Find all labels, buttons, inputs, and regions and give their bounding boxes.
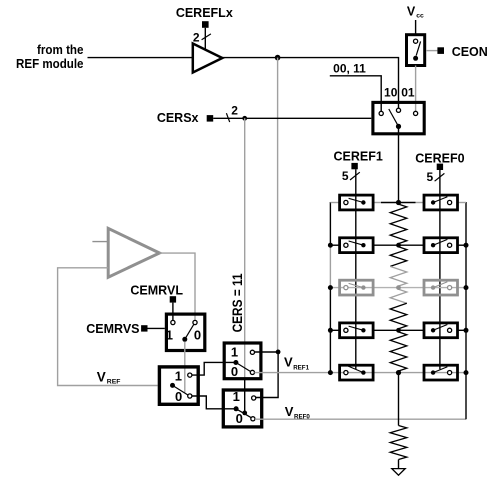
pin: S4 contact 1 [188,373,192,377]
resistor R4: fourth segment [390,332,407,371]
port square CEREF0 [437,164,443,170]
switch lever S5 [236,363,251,372]
wire: S4 contact 0 to CERS switch B [192,396,235,409]
junction node: CERS control on lever [242,411,247,416]
junction ladder tap node row 4 [396,328,401,333]
svg-text:01: 01 [401,86,415,100]
switch lever L2 [349,241,364,245]
pin: R1 right contact [448,200,452,204]
switch lever S2 [389,109,399,126]
switch L4: CEREF1 ladder switch row 4 [340,323,374,338]
switch R1: CEREF0 ladder switch row 1 [424,195,458,210]
junction ladder tap node row 2 [396,243,401,248]
pin: S5 contact 1 [250,350,254,354]
junction node: right bus row at y=287.6 [464,285,469,290]
pin: L3 right contact [361,285,365,289]
switch L3: CEREF1 ladder switch row 3 [340,280,374,295]
svg-text:1: 1 [175,368,182,383]
switch lever S1 [416,41,420,55]
pin: selector common [396,124,401,129]
svg-text:REF: REF [107,379,121,386]
port square CEMRVS [141,325,147,331]
wire: row2 segments (black) [330,244,339,246]
wire: S5 contact 1 to buffer drop junction [255,351,279,353]
svg-text:REF1: REF1 [293,365,309,372]
wire: ladder tap to bottom resistor [398,373,400,426]
pin: R3 left contact [431,285,435,289]
switch lever S6 [236,409,251,418]
wire: row1 inner left (gray then black) [373,202,381,204]
bus slash CEREFLx [202,34,211,40]
resistor R2: second segment (black part) [390,247,407,267]
wire: buffer output drop (gray) to CERS box [277,58,279,352]
pin: S4 contact 0 [188,394,192,398]
bus slash CERSx [226,113,229,122]
wire: selector common to ladder top [398,126,400,202]
bus slash CEREF0 [435,173,445,181]
wire: row1 right stub (gray) [457,202,466,204]
pin: R2 left contact [431,243,435,247]
pin: S6 common [234,406,239,411]
wire: Vcc to CEON switch [415,20,417,34]
wire: buffer output to switch common [222,58,398,109]
pin: L4 right contact [361,328,365,332]
svg-text:cc: cc [416,13,424,20]
pin: L5 right contact [361,370,365,374]
svg-text:1: 1 [166,327,173,342]
pin: L4 left contact [344,328,348,332]
wire: CERSx to selector control [213,117,371,119]
pin: S4 common [170,383,175,388]
resistor R1: ladder top segment [390,204,407,244]
pin: R3 right contact [448,286,452,290]
junction node: CERSx [242,116,247,121]
pin: R5 left contact [431,370,435,374]
wire: junction down to CERS switch B contact 1 [256,352,278,398]
svg-text:10: 10 [384,86,398,100]
switch R4: CEREF0 ladder switch row 4 [424,323,458,338]
switch lever R5 [433,367,447,373]
wire: VREF0 rail (gray) [255,418,466,420]
wire: row3 rail (gray, continuous) [330,287,466,289]
wire: CEMRVL to switch contact 1 [172,303,174,321]
svg-text:00, 11: 00, 11 [333,61,366,75]
switch lever R3 [433,282,447,288]
wire: row1 left stub (gray) [330,202,339,204]
junction node: buffer output [275,55,281,61]
svg-text:V: V [285,404,294,419]
svg-text:CERS = 11: CERS = 11 [230,273,245,332]
wire: 00,11 input to selector [330,76,381,111]
switch lever L4 [349,326,364,330]
junction node: left bus row at y=372.6 [328,370,333,375]
svg-text:0: 0 [194,327,201,342]
port square CEMRVL [170,296,176,302]
wire: VREF1 rail (gray) [255,372,467,374]
pin: selector contact 01 [414,111,418,115]
pin: R4 right contact [448,328,452,332]
junction node: right bus row at y=330.3 [464,328,469,333]
switch R2: CEREF0 ladder switch row 2 [424,238,458,253]
wire: CEREFLx to buffer, 2-bit [204,28,206,50]
switch lever R2 [433,239,447,245]
junction node: buffer drop / CERS A [276,350,281,355]
svg-text:CEREF1: CEREF1 [334,149,383,163]
wire: CERSx drop lower black segment [244,379,246,413]
switch R3: CEREF0 ladder switch row 3 [424,280,458,295]
wire: CEMRVS to switch box [148,327,165,329]
wire: op-amp output to CEMRVS switch (gray) [160,253,196,320]
pin: R2 right contact [448,243,452,247]
svg-text:CEREFLx: CEREFLx [176,6,233,20]
resistor R3: third segment (black part) [390,303,407,328]
pin: L1 left contact [344,200,348,204]
junction node: right bus row at y=245.2 [464,243,469,248]
svg-text:2: 2 [193,31,200,45]
svg-text:V: V [407,5,416,19]
wire: op-amp + input stub (gray) [92,241,108,243]
resistor R5: bottom segment [390,426,407,460]
resistor R2: second segment (gray part) [390,266,407,286]
switch lever R1 [433,197,447,203]
pin: S3 contact 1 [171,320,175,324]
pin: R4 left contact [431,328,435,332]
svg-text:1: 1 [231,344,238,359]
switch lever L1 [349,198,364,202]
resistor R3: third segment (gray part) [390,289,407,303]
junction ladder tap node row 3 (gray) [396,285,401,290]
pin: selector contact 10 [396,108,400,112]
pin: S3 common [182,337,187,342]
port square CEON [437,47,444,54]
junction node: left bus row at y=330.3 [328,328,333,333]
op-amp U1: reference buffer [193,44,223,73]
switch S2: 3-position selector box [373,102,424,133]
pin: L1 right contact [361,200,365,204]
pin: L3 left contact [344,286,348,290]
svg-text:CEMRVS: CEMRVS [86,322,139,336]
pin: S5 common [233,360,238,365]
junction node: left bus row at y=245.2 [328,243,333,248]
wire: row4 segments (black) [330,329,339,331]
wire: left ladder bus middle (gray) [329,245,331,287]
svg-text:2: 2 [231,103,238,117]
svg-text:0: 0 [236,411,243,426]
port square CERSx [207,115,214,122]
switch R5: CEREF0 ladder switch row 5 [424,365,458,380]
switch lever L3 [349,283,364,287]
port square CEREFLx [202,21,209,28]
wire: S4 contact 1 to CERS switch A [192,362,235,375]
wire: right ladder bus (black) [465,202,467,419]
junction ladder tap node row 1 [396,200,401,205]
svg-text:1: 1 [233,389,240,404]
wire: op-amp feedback loop (gray) [58,268,158,386]
switch S1: CEON switch box [407,35,425,66]
switch lever S3 [185,325,194,340]
pin: L5 left contact [344,371,348,375]
junction ladder tap node row 5 / VREF1 [396,370,401,375]
bus slash CEREF1 [350,172,360,180]
switch S5: CERS selector A box [224,343,261,379]
svg-text:CEON: CEON [452,45,488,59]
wire: REF module input to buffer [88,57,193,59]
switch lever L5 [348,366,363,373]
switch lever R4 [433,325,447,331]
port square CEREF1 [351,163,357,169]
pin: selector contact 00,11 [379,111,383,115]
ground [392,469,405,476]
wire: resistor to ground [398,460,400,469]
pin: L2 right contact [361,243,365,247]
switch S6: CERS selector B box [223,390,261,427]
switch L2: CEREF1 ladder switch row 2 [340,238,374,253]
svg-text:V: V [97,369,106,384]
pin: L2 left contact [344,243,348,247]
wire: CERSx drop (gray) [244,118,246,378]
svg-text:5: 5 [342,169,349,183]
switch S3: CEMRVS selector box [166,314,204,350]
switch S4: VREF selector box [159,367,198,404]
switch L5: CEREF1 ladder switch row 5 [340,365,374,380]
switch lever S4 [173,385,188,395]
svg-text:CERSx: CERSx [157,111,199,125]
wire: CEON control (gray) [426,50,437,52]
pin: S6 contact 0 [251,417,255,421]
pin: R5 right contact [448,371,452,375]
svg-text:0: 0 [231,364,238,379]
pin: S6 contact 1 [252,396,256,400]
svg-text:CEREF0: CEREF0 [415,151,464,165]
pin: S5 contact 0 [250,370,254,374]
junction node: right bus row at y=372.6 [464,370,469,375]
pin: CEON switch common [413,56,418,61]
svg-text:5: 5 [426,170,433,184]
svg-text:REF module: REF module [16,57,84,71]
svg-text:V: V [284,355,293,370]
wire: CEREF0 select line, 5-bit [439,170,441,369]
op-amp U2: transfer buffer (gray) [108,228,159,277]
pin: CEON switch top contact [414,39,418,43]
pin: R1 left contact [431,200,435,204]
svg-text:CEMRVL: CEMRVL [130,283,183,297]
wire: CEON switch to selector pin 01 (gray) [415,66,417,112]
wire: S3 common drop (gray) into VREF switch [184,342,186,393]
switch L1: CEREF1 ladder switch row 1 [340,195,374,210]
junction node: left bus row at y=287.6 [328,285,333,290]
wire: left ladder bus upper (black) [329,202,331,245]
wire: left ladder bus lower (black) [329,288,331,373]
wire: CEREF1 select line, 5-bit [355,169,357,369]
svg-text:from the: from the [37,43,84,57]
pin: S3 contact 0 [193,320,197,324]
